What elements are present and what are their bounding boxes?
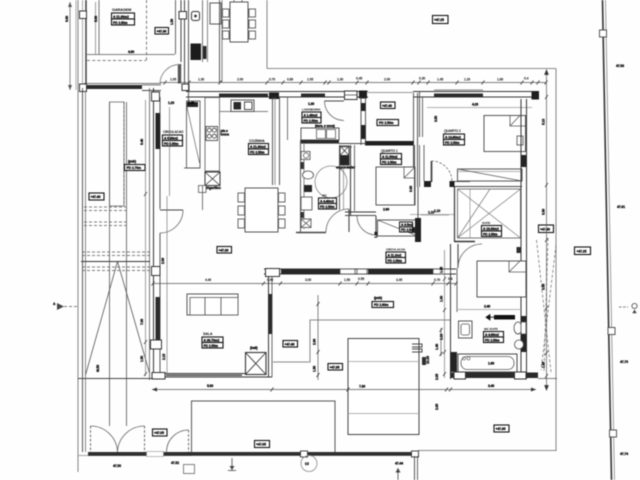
svg-text:0.90: 0.90 xyxy=(409,186,413,192)
corridor walls between hall and quarto2 xyxy=(419,91,421,137)
wc door arc xyxy=(326,209,349,232)
sofa xyxy=(187,294,238,315)
pool ladder xyxy=(412,344,422,352)
+47.40 label right yard xyxy=(539,225,554,233)
wc suite toilet xyxy=(514,322,522,334)
svg-text:esquentador: esquentador xyxy=(336,166,356,170)
stairs dashes upper xyxy=(84,207,126,226)
svg-text:PD 2.50m: PD 2.50m xyxy=(320,205,335,209)
WC label xyxy=(319,194,337,210)
svg-text:0.4: 0.4 xyxy=(524,77,529,81)
corridor wall dark segment xyxy=(281,270,340,275)
walkway wall lines inside xyxy=(188,82,190,102)
svg-text:+47.40: +47.40 xyxy=(285,343,295,347)
svg-text:47.81: 47.81 xyxy=(617,205,625,209)
stairs dashes lower xyxy=(82,252,150,271)
entry door east pillar xyxy=(182,84,189,91)
svg-text:SUITE: SUITE xyxy=(482,221,490,225)
wc suite west wall dark xyxy=(451,352,458,372)
corridor window 3 xyxy=(433,269,451,274)
wc suite bidet xyxy=(515,340,524,349)
corridor label CIRCULACAO xyxy=(386,248,406,264)
east wall dark segment suite bath xyxy=(521,316,527,352)
single gate leaf dashed xyxy=(188,430,190,452)
corridor dim line xyxy=(153,283,456,285)
small square bottom xyxy=(184,465,195,474)
svg-text:1.45: 1.45 xyxy=(437,78,443,82)
property boundary south thin xyxy=(418,450,556,452)
left dim line walkway xyxy=(145,100,147,376)
porch dim vertical xyxy=(317,295,319,380)
svg-text:5.00: 5.00 xyxy=(207,384,213,388)
quarto1 north wall west segment xyxy=(339,143,366,145)
svg-text:PD 2.50m: PD 2.50m xyxy=(164,142,179,146)
QUARTO2 label xyxy=(444,129,465,145)
kitchen north counter edge xyxy=(219,111,268,113)
bathtub xyxy=(458,354,517,372)
survey marker square 3 xyxy=(610,430,617,437)
east arrow marker xyxy=(619,306,628,308)
svg-text:1.20: 1.20 xyxy=(168,101,174,105)
quarto1 pillow fold xyxy=(404,167,415,178)
svg-text:0.90: 0.90 xyxy=(267,278,273,282)
wc suite left dims xyxy=(444,250,446,378)
svg-text:2.90: 2.90 xyxy=(383,208,389,212)
suite door arc xyxy=(458,244,482,268)
WC social west wall xyxy=(300,140,302,233)
garage west pillar xyxy=(80,11,87,19)
svg-text:1.90: 1.90 xyxy=(440,296,444,302)
QUARTO1 label xyxy=(381,149,402,165)
west wall dark segment mid xyxy=(156,297,161,340)
svg-text:f.5: f.5 xyxy=(305,462,309,466)
churrasqueira dark box xyxy=(191,44,202,61)
svg-text:PD 2.50m: PD 2.50m xyxy=(483,232,498,236)
house north wall line bottom xyxy=(186,96,368,98)
wc suite washbasin xyxy=(459,321,473,338)
svg-text:+47.40: +47.40 xyxy=(382,104,392,108)
quarto2 nightstand xyxy=(517,136,523,145)
svg-text:louca: louca xyxy=(221,133,230,137)
quarto2 pillow fold xyxy=(510,116,526,127)
sidewalk line bottom left xyxy=(78,455,192,457)
front dim line xyxy=(152,389,536,391)
svg-text:3.95: 3.95 xyxy=(542,284,546,290)
property boundary west xyxy=(77,0,79,472)
svg-text:0.4: 0.4 xyxy=(448,277,453,281)
gate double leaf dashed right xyxy=(144,426,146,452)
svg-text:LAVANDARIA: LAVANDARIA xyxy=(302,108,321,112)
outdoor table xyxy=(230,2,248,42)
laundry washer dryer counter xyxy=(301,128,339,140)
svg-text:A 4.40m2: A 4.40m2 xyxy=(320,199,334,203)
level marker arrow xyxy=(231,458,233,470)
kitchen east wall (pantry) xyxy=(272,97,274,185)
svg-text:1.50: 1.50 xyxy=(313,366,317,372)
bar pillar white 2 xyxy=(412,451,419,457)
gate arc left xyxy=(91,426,118,452)
svg-text:A 4.60m2: A 4.60m2 xyxy=(485,333,499,337)
dim texts row xyxy=(170,77,529,82)
dining chairs left xyxy=(238,193,245,202)
svg-text:47.44: 47.44 xyxy=(395,462,403,466)
garage dashed line south xyxy=(87,60,146,62)
wc big shower circle xyxy=(315,166,347,198)
sala side door arc xyxy=(160,210,183,233)
svg-text:CIRCULACAO: CIRCULACAO xyxy=(386,248,406,252)
quarto1 east wall xyxy=(414,145,416,205)
svg-text:(pub): (pub) xyxy=(128,160,136,164)
svg-text:CIRCULACAO: CIRCULACAO xyxy=(163,130,184,134)
svg-text:A 3.5m2: A 3.5m2 xyxy=(401,223,413,227)
corridor wall pillar white xyxy=(266,269,280,277)
driveway east verticals xyxy=(109,102,111,426)
bar white gap xyxy=(147,452,164,457)
roof overhang edge xyxy=(266,0,268,69)
svg-text:4.40: 4.40 xyxy=(205,278,211,282)
small line below fridge xyxy=(202,186,204,210)
dining table xyxy=(245,188,278,232)
suite closet south wall xyxy=(455,241,476,243)
svg-text:47.70: 47.70 xyxy=(620,360,628,364)
terrace rectangle xyxy=(192,401,336,453)
svg-text:frigorifico: frigorifico xyxy=(206,186,221,190)
wall east from suite wc to boundary xyxy=(538,378,557,380)
svg-text:0.45: 0.45 xyxy=(356,77,362,81)
svg-text:10.35: 10.35 xyxy=(426,356,430,364)
stairs solid line xyxy=(81,261,150,263)
wc door leaf xyxy=(348,209,350,232)
quarto2 door jambs xyxy=(424,181,431,187)
kitchen counter sink-stove unit xyxy=(231,100,254,112)
svg-text:PD 2.50m: PD 2.50m xyxy=(388,259,403,263)
sala south window lines xyxy=(166,374,242,376)
svg-text:+47.25: +47.25 xyxy=(434,18,444,22)
svg-text:1.05: 1.05 xyxy=(307,78,313,82)
svg-text:3.40: 3.40 xyxy=(488,384,494,388)
hall west pillar dark xyxy=(359,91,367,99)
svg-text:QUARTO 1: QUARTO 1 xyxy=(381,149,398,153)
svg-text:A 11.2m2: A 11.2m2 xyxy=(388,253,402,257)
pool water lines xyxy=(348,361,419,363)
wc bottom fixture X xyxy=(301,219,311,228)
svg-text:PD 2.50m: PD 2.50m xyxy=(379,121,394,125)
svg-text:(lava. e seca): (lava. e seca) xyxy=(315,124,335,128)
garage dashed centerline xyxy=(146,0,148,61)
svg-text:+47.30: +47.30 xyxy=(219,249,229,253)
walkway east edge xyxy=(149,88,151,380)
water heater boxes xyxy=(340,146,349,156)
garage south pillar xyxy=(80,84,87,92)
svg-text:3.30: 3.30 xyxy=(542,209,546,215)
wc east wall xyxy=(339,145,341,210)
quarto1 door leaf xyxy=(375,216,377,235)
svg-text:0.70: 0.70 xyxy=(434,278,440,282)
bottom thick bar xyxy=(88,452,415,456)
svg-text:1.50: 1.50 xyxy=(140,356,144,362)
single gate arc xyxy=(167,430,189,452)
svg-text:+47.05: +47.05 xyxy=(154,431,164,435)
churrasqueira side bar xyxy=(203,46,207,59)
+47.30 label sala xyxy=(217,247,232,254)
svg-text:PD 2.50m: PD 2.50m xyxy=(113,21,128,25)
svg-text:A 16.30m2: A 16.30m2 xyxy=(483,227,499,231)
laundry window dark band xyxy=(301,94,325,97)
hall PD label xyxy=(377,120,399,126)
+47.35 label bottom right xyxy=(494,425,509,432)
garage west wall xyxy=(85,0,87,88)
sala east wall xyxy=(268,276,270,377)
west outer dimension line xyxy=(69,2,71,90)
svg-text:1.60: 1.60 xyxy=(488,362,494,366)
svg-text:PD 2.50m: PD 2.50m xyxy=(250,150,265,154)
svg-text:+47.30: +47.30 xyxy=(157,30,167,34)
svg-text:47.50: 47.50 xyxy=(113,464,121,468)
east wall dark segment quarto2 xyxy=(521,155,527,167)
survey marker square 1 xyxy=(600,30,607,37)
svg-text:PD 2.70m: PD 2.70m xyxy=(127,166,142,170)
laundry door leaf xyxy=(325,100,345,102)
garage east wall xyxy=(180,0,182,62)
section cut marker A xyxy=(57,303,64,310)
svg-text:3.45: 3.45 xyxy=(396,278,402,282)
svg-text:+47.35: +47.35 xyxy=(330,366,340,370)
survey line (double slanted) xyxy=(603,0,612,480)
svg-text:1.50: 1.50 xyxy=(344,278,350,282)
COZINHA label xyxy=(249,139,269,155)
quarto2 window sill xyxy=(434,89,483,91)
garage-walk door leaf xyxy=(178,64,181,84)
walkway vertical bottom xyxy=(414,456,416,480)
+47.25 label top xyxy=(433,16,449,24)
kitchen pantry cabinet xyxy=(187,101,201,168)
garage interior line xyxy=(98,0,100,54)
svg-text:PD 2.50m: PD 2.50m xyxy=(445,141,460,145)
CIRCULACAO label left xyxy=(163,130,185,146)
garage south wall bar xyxy=(84,85,142,89)
svg-text:A 1.40m2: A 1.40m2 xyxy=(304,113,318,117)
driveway west edge xyxy=(82,88,84,452)
svg-text:0.55: 0.55 xyxy=(358,277,364,281)
svg-text:1.10: 1.10 xyxy=(440,334,444,340)
+47.40 label hall xyxy=(283,341,298,348)
chairs right xyxy=(249,9,256,17)
suite door leaf xyxy=(457,244,459,268)
hall sidelight white box xyxy=(345,91,358,100)
svg-text:3.50: 3.50 xyxy=(434,116,438,122)
svg-text:PD 2.50m: PD 2.50m xyxy=(204,344,219,348)
svg-text:1.30: 1.30 xyxy=(337,78,343,82)
west wall pillar mid xyxy=(152,267,161,276)
corridor window 1 xyxy=(340,269,355,274)
garage door line xyxy=(175,0,177,54)
wall east of door xyxy=(455,181,471,183)
section circle 1.5 xyxy=(301,456,317,472)
property boundary east xyxy=(555,69,557,452)
svg-text:5.10: 5.10 xyxy=(542,119,546,125)
svg-text:5.40: 5.40 xyxy=(140,139,144,145)
svg-text:1.30: 1.30 xyxy=(198,78,204,82)
svg-text:2.40: 2.40 xyxy=(484,305,490,309)
svg-text:A 14.80m2: A 14.80m2 xyxy=(445,135,461,139)
fridge X box xyxy=(205,172,220,186)
GARAGEM label xyxy=(112,8,135,25)
suite west wall xyxy=(450,244,452,379)
west wall pillar top xyxy=(152,92,160,101)
+47.05 label gate xyxy=(153,429,168,436)
porch step outline xyxy=(273,320,450,362)
wall segment left of closet xyxy=(415,218,421,242)
svg-text:PD 2.50m: PD 2.50m xyxy=(485,338,500,342)
svg-text:WC SUITE: WC SUITE xyxy=(484,327,498,331)
svg-text:A 5.30m2: A 5.30m2 xyxy=(164,136,178,140)
svg-text:PD 2.50m: PD 2.50m xyxy=(382,160,397,164)
svg-text:0.80: 0.80 xyxy=(287,78,293,82)
garage east pillar xyxy=(179,12,187,20)
quarto1 south wall xyxy=(345,211,376,213)
svg-text:1.35: 1.35 xyxy=(440,267,444,273)
svg-text:(hall): (hall) xyxy=(250,346,258,350)
svg-text:3.00: 3.00 xyxy=(305,278,311,282)
svg-text:2.15: 2.15 xyxy=(162,354,166,360)
wc dark fixture xyxy=(304,185,312,192)
svg-text:1.20: 1.20 xyxy=(464,78,470,82)
svg-text:0.30: 0.30 xyxy=(419,77,425,81)
corridor window 2 xyxy=(357,269,367,274)
svg-text:1.60: 1.60 xyxy=(497,78,503,82)
pillar between windows xyxy=(269,93,279,100)
driveway bottom line xyxy=(78,378,153,380)
bar pillar white 1 xyxy=(301,451,308,457)
hall south wall dark xyxy=(365,141,414,146)
svg-text:1.50: 1.50 xyxy=(170,19,174,25)
quarto1 door arc xyxy=(357,216,376,235)
svg-text:+47.40: +47.40 xyxy=(540,228,550,232)
pool dim text dark xyxy=(422,357,426,365)
kitchen west counter xyxy=(205,98,220,172)
quarto1 wardrobe xyxy=(378,220,418,236)
+47.05 label mid xyxy=(255,441,270,448)
+47.30 label garage xyxy=(155,28,169,35)
WC SUITE label xyxy=(484,327,504,343)
svg-text:2.90: 2.90 xyxy=(313,339,317,345)
corridor south wall xyxy=(264,268,456,270)
svg-text:A 26.70m2: A 26.70m2 xyxy=(204,338,220,342)
survey marker square 2 xyxy=(608,328,615,335)
dining chairs right xyxy=(279,193,286,202)
suite closet walls xyxy=(454,187,456,242)
counter box top xyxy=(210,3,221,24)
svg-text:1.40: 1.40 xyxy=(188,101,194,105)
svg-text:M.50: M.50 xyxy=(96,365,100,372)
closet inner vertical xyxy=(469,189,471,238)
svg-text:+47.25: +47.25 xyxy=(577,250,587,254)
svg-text:A 21.30m2: A 21.30m2 xyxy=(113,15,129,19)
SUITE label xyxy=(482,221,502,237)
+47.40 label left xyxy=(89,193,104,200)
LAVANDARIA label xyxy=(302,108,321,124)
dim ticks xyxy=(164,81,548,85)
hob 4 circles xyxy=(206,127,218,141)
bottom arrow xyxy=(397,468,399,480)
laundry door arc xyxy=(325,101,345,121)
svg-text:1.40: 1.40 xyxy=(435,344,439,350)
quarto2 wardrobe xyxy=(458,169,523,181)
svg-text:PD 2.5m: PD 2.5m xyxy=(401,228,414,232)
west wall radiator dark xyxy=(156,113,161,149)
svg-text:1.35: 1.35 xyxy=(542,362,546,368)
pool xyxy=(348,339,419,435)
right yard hatch dashed V xyxy=(537,238,557,372)
svg-text:6.60: 6.60 xyxy=(65,16,69,22)
svg-text:1.10: 1.10 xyxy=(434,209,440,213)
wc suite black bench arrow xyxy=(494,315,515,320)
svg-text:+47.40: +47.40 xyxy=(91,195,101,199)
wc washbasin small xyxy=(301,152,310,160)
svg-text:PD 2.50m: PD 2.50m xyxy=(304,119,319,123)
entry walk dimension line xyxy=(160,82,546,84)
svg-text:PD 2.60m: PD 2.60m xyxy=(374,303,389,307)
svg-text:2.90: 2.90 xyxy=(161,258,165,264)
+47.35 label near pool left xyxy=(328,364,343,371)
svg-text:47.74: 47.74 xyxy=(620,452,628,456)
property boundary north xyxy=(267,68,556,70)
suite bed xyxy=(477,261,526,297)
chairs left xyxy=(223,9,230,17)
QUARTO1 west wall xyxy=(350,145,352,216)
quarto1 bed xyxy=(376,167,415,205)
quarto2 door arc xyxy=(432,161,453,182)
closet diagonals xyxy=(458,189,521,238)
svg-text:A: A xyxy=(53,302,56,306)
hall +47.40 label xyxy=(381,102,396,109)
patio west wall xyxy=(219,0,221,82)
NE corner pillar dark xyxy=(532,91,540,100)
outdoor kitchen wall lines xyxy=(188,0,190,82)
garage dim line xyxy=(87,54,175,56)
house north wall line top xyxy=(186,91,368,93)
svg-text:SALA: SALA xyxy=(203,332,213,336)
gate double leaf dashed left xyxy=(90,426,92,452)
suite closet rect xyxy=(458,189,521,238)
svg-text:QUARTO 2: QUARTO 2 xyxy=(444,129,461,133)
hall glazing thin line xyxy=(368,92,413,94)
svg-text:4.20: 4.20 xyxy=(472,103,478,107)
planter rect xyxy=(110,102,125,206)
house east wall xyxy=(520,99,522,372)
svg-text:1.30: 1.30 xyxy=(308,102,314,106)
svg-text:2.05: 2.05 xyxy=(435,374,439,380)
svg-text:(pub): (pub) xyxy=(374,296,382,300)
pantry shelf line xyxy=(287,97,289,140)
gate arc right xyxy=(118,426,145,452)
svg-text:1.05: 1.05 xyxy=(170,78,176,82)
svg-text:+47.35: +47.35 xyxy=(496,427,506,431)
svg-text:5.90: 5.90 xyxy=(94,16,98,22)
svg-text:2.00: 2.00 xyxy=(384,78,390,82)
svg-text:COZINHA: COZINHA xyxy=(249,139,265,143)
svg-text:7.30: 7.30 xyxy=(359,385,365,389)
quarto2 door leaf xyxy=(431,161,433,182)
svg-text:A 21.30m2: A 21.30m2 xyxy=(250,145,266,149)
svg-text:WC: WC xyxy=(322,194,328,198)
svg-text:2.05: 2.05 xyxy=(435,404,439,410)
suite pillow fold xyxy=(509,261,526,272)
pool right dim xyxy=(440,328,442,356)
wardrobe dark text blob xyxy=(411,227,416,233)
wc shower tray xyxy=(301,197,312,210)
svg-text:47.53: 47.53 xyxy=(616,64,624,68)
